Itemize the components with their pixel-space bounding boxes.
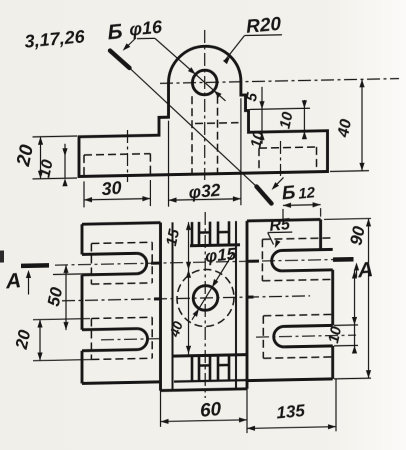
svg-text:135: 135: [276, 401, 306, 423]
svg-text:A: A: [4, 269, 22, 293]
svg-text:A: A: [356, 258, 374, 282]
svg-text:60: 60: [199, 399, 222, 422]
svg-text:φ16: φ16: [129, 17, 164, 40]
svg-text:30: 30: [101, 177, 122, 199]
svg-text:φ32: φ32: [188, 180, 221, 203]
svg-text:Б: Б: [281, 182, 296, 204]
svg-text:R20: R20: [245, 14, 282, 38]
svg-text:12: 12: [298, 184, 316, 202]
svg-text:Б: Б: [107, 20, 124, 44]
